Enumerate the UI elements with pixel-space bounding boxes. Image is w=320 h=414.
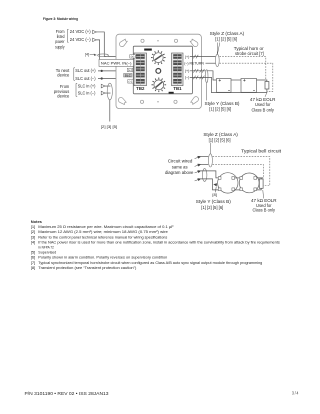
wire SLC out (+) to TB2 <box>98 70 127 72</box>
svg-text:NAC PWR. IN(−): NAC PWR. IN(−) <box>101 60 132 65</box>
wire SLC in (-) <box>105 92 111 94</box>
svg-text:[8]: [8] <box>212 192 217 197</box>
label Typical bell circuit <box>241 149 282 154</box>
label mark bottom <box>169 92 174 94</box>
svg-text:[2] [3] [5]: [2] [3] [5] <box>101 124 117 129</box>
svg-text:TB2: TB2 <box>136 86 145 91</box>
svg-text:[1] [2] [5] [6]: [1] [2] [5] [6] <box>215 36 237 41</box>
riser sleeve class A return lower <box>208 154 212 167</box>
svg-text:(−): (−) <box>185 76 190 80</box>
svg-text:(+): (+) <box>131 55 135 59</box>
riser sleeve SLC in <box>107 83 112 100</box>
keyhole slot bottom-left <box>118 97 126 104</box>
resistor EOLR 47k lower <box>259 179 263 188</box>
TB2 pin label (+) row1 <box>130 55 135 59</box>
svg-text:24 VDC (+): 24 VDC (+) <box>70 29 91 34</box>
wire lower row3 <box>201 171 220 178</box>
svg-text:SLC: SLC <box>125 73 132 77</box>
junction dot SLC out (+) <box>101 70 103 72</box>
wire sleeve on 24VDC drop wires <box>98 54 109 57</box>
feed sleeve lower <box>202 169 207 182</box>
TB2 pin label SLC <box>124 73 132 77</box>
plate holes top <box>141 39 178 42</box>
leader Style Z top <box>217 43 220 55</box>
wire SLC in (+) <box>105 85 111 87</box>
leader 47k upper <box>265 93 267 97</box>
dashed return wire row1 <box>219 57 265 80</box>
svg-text:P/N 3101190 • REV 02 • ISS 28J: P/N 3101190 • REV 02 • ISS 28JAN13 <box>25 391 110 396</box>
wire TB1 row2 out <box>206 62 216 64</box>
svg-text:If the NAC power riser is used: If the NAC power riser is used for more … <box>38 239 279 244</box>
connector arrow 24VDC+ <box>93 30 97 34</box>
junction dot SLC out (-) <box>101 77 103 79</box>
arrows from label to wires <box>195 156 201 181</box>
terminal block TB2 <box>134 53 147 86</box>
label 24 VDC (-) <box>70 37 91 42</box>
wire lower row4 bottom rail <box>201 179 220 190</box>
break marks row3 <box>193 69 204 73</box>
label Style Z (Class A) lower <box>203 132 238 142</box>
note ref [8] with arrow <box>212 183 217 197</box>
SLC riser wire down <box>109 100 111 122</box>
wire between bells bottom <box>233 189 241 191</box>
wire lower row2 <box>201 163 209 165</box>
TB2 pin label NAC PWR IN(-) <box>99 59 134 66</box>
label Circuit wired same as diagram above <box>165 158 194 174</box>
wire SLC out (-) to TB2 <box>98 79 128 82</box>
wire bell B2 to EOLR top <box>255 178 263 179</box>
svg-text:TB1: TB1 <box>173 86 182 91</box>
TB1 pin label (-) row4 <box>185 76 190 80</box>
dashed return lower row1 <box>213 157 270 186</box>
label: From listed power supply <box>55 29 65 50</box>
svg-text:Style Y (Class B): Style Y (Class B) <box>205 101 241 106</box>
note ref [4] with arrow <box>85 52 97 56</box>
horn/strobe appliance A1 <box>217 79 232 93</box>
TB1 pin label (+) row3 <box>185 69 190 73</box>
svg-text:Class B only: Class B only <box>253 208 276 213</box>
wire appliance A2 to EOLR <box>257 80 267 82</box>
svg-text:[1] [2] [5] [6]: [1] [2] [5] [6] <box>201 205 223 210</box>
rotary address dial S2 <box>152 78 167 93</box>
horn/strobe appliance A2 <box>241 79 257 93</box>
label 47k EOLR lower <box>251 198 277 212</box>
leader Style Y <box>206 83 208 101</box>
svg-text:[1] [2] [5] [6]: [1] [2] [5] [6] <box>209 107 231 112</box>
keyhole slot top-right <box>190 39 198 47</box>
label 47k EOLR upper <box>250 97 276 113</box>
label SLC in (-) <box>78 90 96 95</box>
connector arrow SLC in (-) <box>101 91 105 95</box>
label TB1 <box>173 86 182 91</box>
svg-text:supply: supply <box>55 44 65 49</box>
bracket for 24VDC pair <box>67 29 68 42</box>
svg-text:Style Y (Class B): Style Y (Class B) <box>196 199 232 204</box>
TB1 pin label (+) row1 <box>185 55 190 59</box>
svg-text:[1] [2] [5] [6]: [1] [2] [5] [6] <box>209 137 231 142</box>
label mark top <box>144 49 152 51</box>
wire TB1 row4 out <box>190 77 267 92</box>
break marks row1 <box>193 55 198 59</box>
rotary address dial S1 <box>151 50 166 65</box>
TB2 pin label (-) row5 <box>128 80 133 84</box>
resistor EOLR 47k upper <box>265 82 269 93</box>
svg-text:24 VDC (−): 24 VDC (−) <box>70 37 91 42</box>
label SLC out (-) <box>75 76 96 81</box>
svg-text:SLC out (−): SLC out (−) <box>75 76 96 81</box>
svg-text:strobe circuit [7]: strobe circuit [7] <box>235 51 264 56</box>
terminal block TB1 <box>172 53 184 86</box>
svg-text:Figure 3: Module wiring: Figure 3: Module wiring <box>43 17 78 21</box>
svg-text:[4]: [4] <box>31 239 35 244</box>
label Style Y (Class B) lower <box>196 199 232 210</box>
svg-text:SLC in (+): SLC in (+) <box>78 83 96 88</box>
wire lower row1 <box>201 156 209 158</box>
svg-text:device: device <box>57 72 69 77</box>
wire TB1 row1 out <box>190 56 216 58</box>
svg-text:Circuit wired: Circuit wired <box>168 158 193 163</box>
break marks row4 <box>193 76 204 80</box>
label Style Z (Class A) top <box>210 31 245 41</box>
bracket SLC in pair <box>76 83 77 96</box>
figure title <box>43 17 78 21</box>
connector arrow SLC in (+) <box>101 84 105 88</box>
plate holes bottom <box>140 100 177 103</box>
svg-text:(−) RETURN: (−) RETURN <box>184 61 204 65</box>
dashed return lower row2 <box>213 164 264 178</box>
leader sleeve Style Y <box>205 70 208 83</box>
keyhole slot bottom-right <box>191 97 199 105</box>
svg-text:[8]: [8] <box>31 265 35 270</box>
svg-text:(+): (+) <box>185 69 190 73</box>
label SLC in (+) <box>78 83 96 88</box>
riser sleeve class A return <box>215 54 219 66</box>
svg-text:3 / 4: 3 / 4 <box>292 390 299 395</box>
svg-text:47 kΩ EOLR: 47 kΩ EOLR <box>250 97 276 102</box>
notes <box>31 219 280 270</box>
TB2 pin label (+) row3 <box>127 68 132 72</box>
svg-text:[4]: [4] <box>85 52 89 56</box>
svg-text:Transient protection (see “Tra: Transient protection (see “Transient pro… <box>38 265 137 270</box>
svg-text:(+): (+) <box>128 68 132 72</box>
LED ring <box>156 69 161 74</box>
leader Style Z lower <box>210 143 212 154</box>
label: From previous device <box>54 84 70 98</box>
connector arrow 24VDC- <box>93 38 97 42</box>
wire 24VDC- to NAC PWR IN(-) <box>96 40 100 60</box>
svg-text:device: device <box>57 94 69 99</box>
wire TB1 row3 out <box>190 71 217 80</box>
dashed return wire row2 <box>219 63 272 91</box>
bell terminals B2 <box>240 177 257 191</box>
wire between appliances <box>231 79 241 81</box>
svg-text:(+): (+) <box>185 55 190 59</box>
label SLC out (+) <box>75 68 96 73</box>
bell B2 <box>239 173 259 193</box>
svg-text:SLC out (+): SLC out (+) <box>75 68 96 73</box>
bell B1 <box>218 173 238 193</box>
footer <box>25 390 299 395</box>
label 24 VDC (+) <box>70 29 91 34</box>
label: To next device <box>56 68 70 77</box>
svg-text:Class B only: Class B only <box>251 107 274 112</box>
svg-text:Used for: Used for <box>255 102 271 107</box>
keyhole slot top-left <box>119 39 127 47</box>
leader 47k lower <box>262 190 265 198</box>
module body <box>133 46 192 94</box>
label Typical horn or strobe circuit [7] <box>234 46 264 56</box>
TB1 pin label (-) RETURN <box>184 61 204 65</box>
mounting plate <box>116 34 201 108</box>
svg-text:SLC in (−): SLC in (−) <box>78 90 96 95</box>
svg-text:diagram above: diagram above <box>165 170 194 175</box>
wire 24VDC+ to TB2 terminal 1 <box>96 32 130 56</box>
note refs [2][3][5] <box>101 124 117 129</box>
bracket SLC out pair <box>74 68 75 81</box>
wire bottom rail to EOLR <box>255 188 261 190</box>
svg-text:(−): (−) <box>129 80 133 84</box>
wire between bells top <box>233 177 241 179</box>
svg-text:Typical bell circuit: Typical bell circuit <box>241 149 282 154</box>
label TB2 <box>136 86 145 91</box>
label Style Y (Class B) upper <box>205 101 241 112</box>
bell terminals B1 <box>218 177 234 191</box>
